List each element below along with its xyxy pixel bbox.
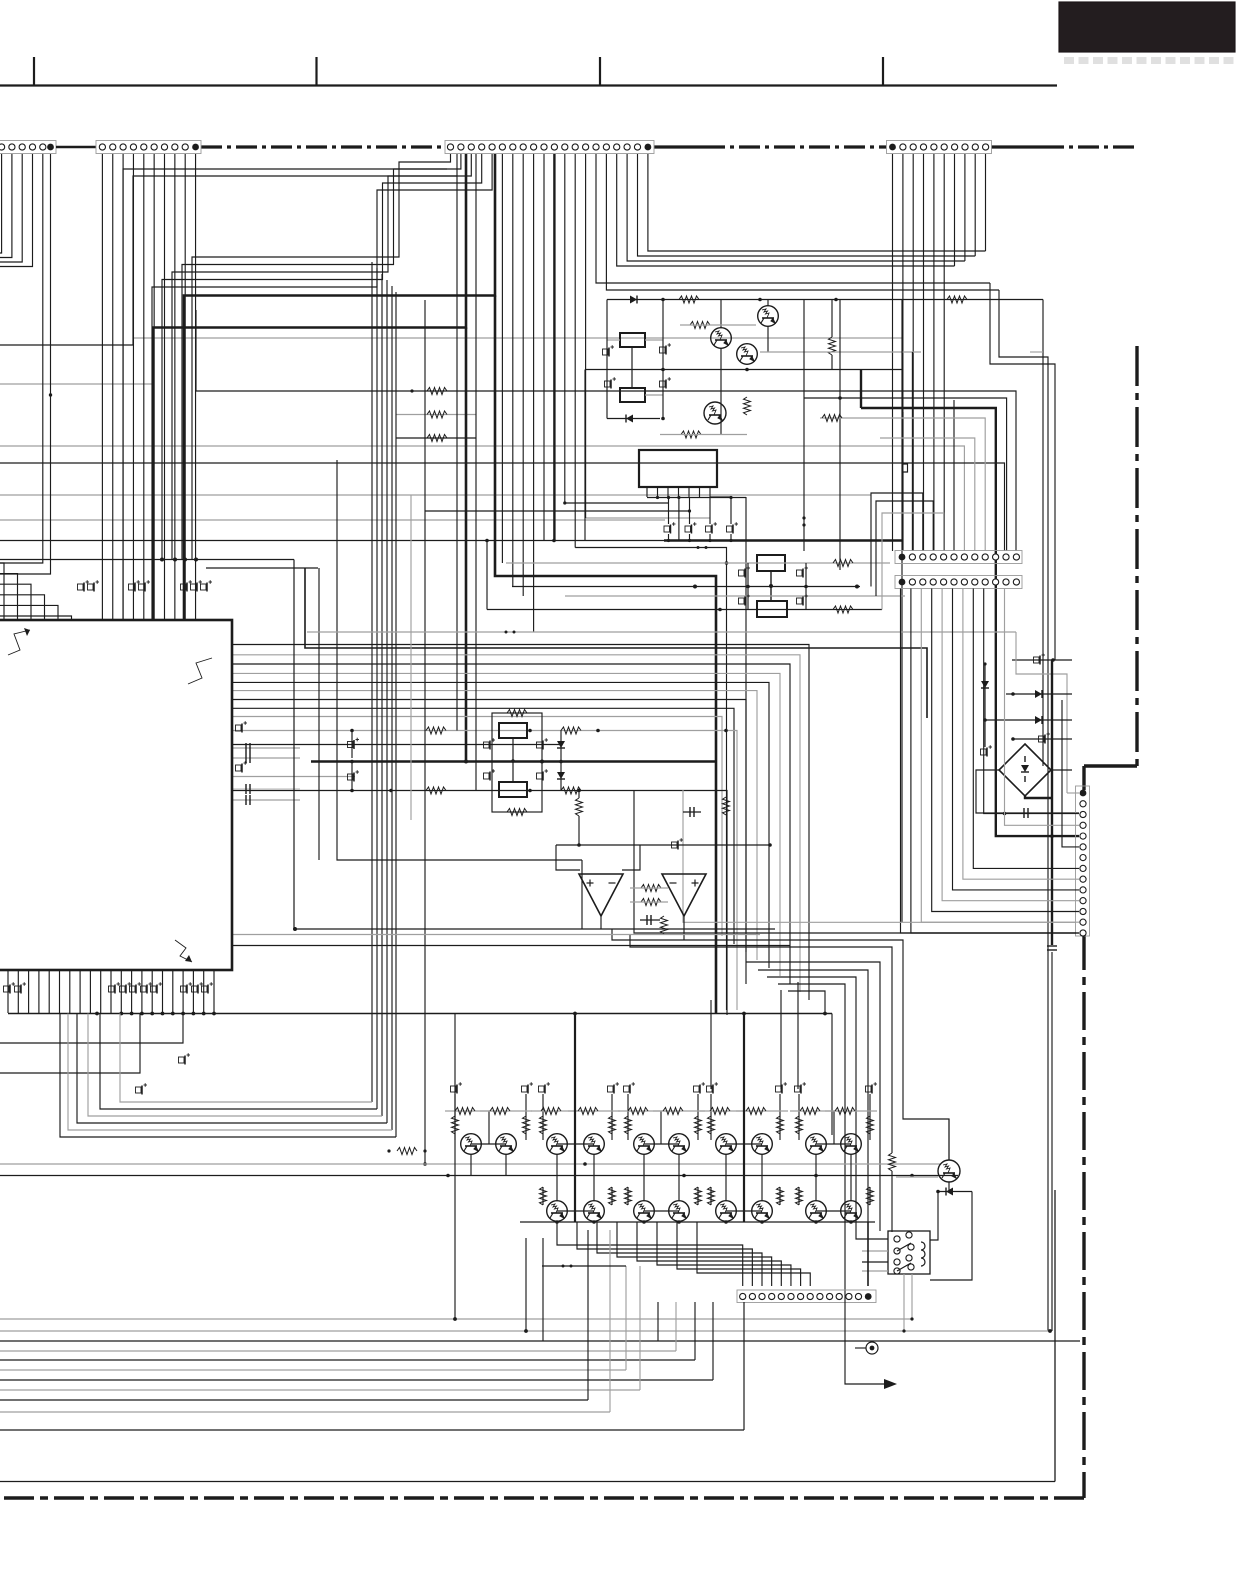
wire IC101 pin line y654 <box>232 655 800 992</box>
wire CN104 pin1 drop <box>892 154 894 551</box>
diode D201 <box>630 296 637 304</box>
resistor ta2 Rv x698 <box>695 1187 702 1205</box>
transistor QB6 <box>752 1201 773 1222</box>
connector CN107 pins <box>1080 790 1087 937</box>
connector CN102 pins <box>99 144 199 151</box>
transistor QA8 <box>752 1134 773 1155</box>
wire staircase SE 6 <box>778 984 845 1302</box>
wire ta col 798 top <box>797 982 799 1089</box>
capacitor C206 <box>797 566 809 577</box>
section border top segment A <box>201 145 445 148</box>
connector CN103 housing <box>445 141 654 154</box>
wire staircase SE 1 <box>612 929 949 1160</box>
resistor ta2 Rv x870 <box>867 1187 874 1205</box>
pcb outline right vertical <box>1054 1190 1056 1482</box>
wire X2 caps v <box>746 563 808 609</box>
wire CN105 pin9 feed gray <box>820 415 985 552</box>
resistor R402 bottom <box>507 809 527 816</box>
resistor ta Rv x870 <box>867 1116 874 1134</box>
wire elbow into IC top 4 <box>0 605 58 620</box>
wire x868 to CN108 <box>867 1222 869 1286</box>
wire CN105 pin4 feed <box>876 501 933 596</box>
capacitor C205 <box>739 566 751 577</box>
resistor ta2 Rv x612 <box>609 1187 616 1205</box>
wire CN101 pin2 drop <box>0 154 12 258</box>
component X202 box <box>757 601 787 617</box>
IC IC101 corner mark 3 <box>175 940 192 962</box>
capacitor below IC x155 <box>151 982 163 993</box>
resistor ta Rv x780 <box>777 1116 784 1134</box>
resistor ta Rv x799 <box>796 1116 803 1134</box>
wire mid y945 <box>232 945 790 947</box>
wire long vertical x133 <box>133 176 457 338</box>
wire gray y495 <box>0 494 871 496</box>
thick trace E y408 <box>861 370 1079 838</box>
wire h y559 with junctions <box>0 558 294 562</box>
wire bridge bottom thick <box>1025 770 1072 798</box>
wire gray y596 <box>565 595 905 597</box>
transistor QA3 <box>547 1134 568 1155</box>
wire bottom dots <box>453 1317 528 1333</box>
capacitor below IC x185 <box>181 982 193 993</box>
wire relay leads <box>862 1251 888 1271</box>
wire y1175 <box>0 1174 958 1178</box>
capacitor C303 <box>981 745 993 756</box>
resistor R205 v <box>744 397 751 415</box>
wire IC101 bottom pins <box>8 970 214 1013</box>
wire IC101 pin line y708 <box>232 708 734 944</box>
resistor ta Rh 7 <box>746 1108 766 1115</box>
wire CN105 pin2 feed <box>911 352 913 551</box>
wire CN107 pin4 feed gray <box>1005 589 1080 826</box>
wire CN101 pin5 drop <box>0 154 43 563</box>
capacitor below IC x113 <box>109 982 121 993</box>
wire central bundle x726 <box>575 546 728 1010</box>
wire ta row1 links <box>471 1143 851 1145</box>
wire long h y1102 gray <box>120 1014 372 1103</box>
resistor ta Rh 8 <box>800 1108 820 1115</box>
wire gray y384 <box>0 383 154 385</box>
transistor QA1 <box>461 1134 482 1155</box>
wire ta row2 links <box>543 1187 870 1211</box>
resistor R206 h <box>660 431 747 438</box>
connector CN104 pins <box>889 144 989 151</box>
thick trace A2 continue <box>495 296 716 1014</box>
wire IC101 pin line y699 <box>232 700 746 953</box>
wire X2 stem <box>769 571 773 601</box>
wire staircase to CN108 <box>557 1222 810 1286</box>
wire pin y744 <box>232 744 561 746</box>
resistor ta Rh 9 <box>835 1108 855 1115</box>
wire bb elbow1 <box>0 1014 183 1044</box>
wire CN103-CN104 run 3 <box>617 154 955 266</box>
wire h y540 <box>0 539 902 543</box>
connector CN101 housing <box>0 141 56 154</box>
wire central bundle x746 <box>745 497 747 984</box>
wire loop frame <box>492 713 542 812</box>
title block tick 1 <box>33 57 35 86</box>
capacitor C406 <box>683 807 701 817</box>
wire CN107 pin11 feed <box>942 589 1079 901</box>
transistor Q201 <box>711 300 732 435</box>
wire CN107 pin14 long <box>634 790 1076 933</box>
wire IC101 pin line y690 <box>232 691 757 960</box>
title block tick 3 <box>599 57 601 86</box>
resistor ta2 Rv x711 <box>708 1187 715 1205</box>
wire mid bundle verticals <box>372 262 396 1137</box>
resistor ta Rv x543 <box>540 1116 547 1134</box>
capacitor ta C x799 <box>795 1082 807 1093</box>
wire ta hres rail y1111 <box>445 1110 877 1112</box>
wire bridge left <box>976 770 1021 813</box>
capacitors under IC201 <box>664 522 738 533</box>
wire IC201 y503 run <box>563 154 668 505</box>
wire v x487 <box>486 542 488 610</box>
wire staircase CN103 pin3 <box>172 154 471 560</box>
resistor R401 top <box>507 710 527 717</box>
capacitor C407 <box>640 915 660 925</box>
title block tick 2 <box>315 57 317 86</box>
wire bottom bus 5 <box>0 1369 626 1371</box>
section border right vertical <box>1135 346 1138 766</box>
wire ta row2 bottom rail <box>520 1220 875 1224</box>
wire CN107 pin3 feed <box>984 589 1079 816</box>
capacitor below IC x134 <box>130 982 142 993</box>
relay RY201 coil box <box>620 333 645 347</box>
section border top segment B <box>654 145 886 148</box>
wire IC201 y511 run <box>425 154 691 548</box>
wire bridge cap <box>1021 808 1079 818</box>
wire v x295 <box>293 560 295 930</box>
wire bottom bus 0 <box>0 1318 912 1320</box>
resistor ta Rh 3 <box>578 1108 598 1115</box>
wire gray y1164 <box>0 1162 940 1166</box>
wire small caps left of IC right pins <box>232 721 300 800</box>
resistor ta Rv x628 <box>625 1116 632 1134</box>
wire h y398 <box>804 396 1007 551</box>
title caption text (illegible) <box>1064 57 1234 64</box>
wire h y520 gray <box>0 519 665 521</box>
wire CN104 pin4 drop <box>923 154 925 551</box>
wire staircase SE 7 <box>788 991 827 1015</box>
capacitor below IC x145 <box>141 982 153 993</box>
wire X2 rail gray y563 <box>506 560 890 567</box>
resistor R301 v <box>889 1153 896 1232</box>
transistor QB8 <box>841 1201 862 1222</box>
capacitor C404 <box>537 769 549 780</box>
capacitor above IC x205 <box>201 580 213 591</box>
resistor ta Rv x455 <box>452 1116 459 1134</box>
wire IC101 pin line y644 <box>232 645 809 1001</box>
transistor QB5 <box>716 1201 737 1222</box>
wire ta thick col x744 <box>743 1014 745 1223</box>
wire bottom bus 1 <box>0 1330 1050 1332</box>
wire CN107 pin10 feed <box>953 589 1080 890</box>
wire CN103 pin10 drop <box>543 154 545 541</box>
thick trace B2 continue <box>311 328 716 762</box>
transistor QA2 <box>496 1134 517 1155</box>
wire rd verticals <box>607 300 902 923</box>
connector CN108 pins <box>740 1293 872 1300</box>
component X401 box <box>499 723 527 738</box>
resistor ta Rv x526 <box>523 1116 530 1134</box>
wire CN107 pin14 feed <box>901 589 1080 934</box>
capacitor ta C x780 <box>776 1082 788 1093</box>
capacitor C403 <box>484 769 496 780</box>
wire IC201 cap drops <box>669 497 732 524</box>
wire bottom bus 4 <box>0 1359 695 1361</box>
wire RY201 stem <box>607 340 663 395</box>
wire h y438 <box>396 435 476 442</box>
wire v x425 <box>387 300 426 1166</box>
capacitor above IC x143 <box>139 580 151 591</box>
wire CN104 right pin drops <box>955 154 986 266</box>
wire staircase CN103 pin1 <box>192 154 451 560</box>
wire CN103-CN104 run 1 <box>638 154 976 256</box>
wire long h y1130 gray <box>68 1014 392 1131</box>
wire CN103 pin7 drop <box>512 154 514 587</box>
wire h y414 <box>396 411 476 418</box>
transistor QB2 <box>584 1201 605 1222</box>
wire v x455 <box>454 1014 456 1320</box>
wire rd top rail <box>607 298 902 302</box>
wire CN104 pin2 drop <box>902 154 904 551</box>
wire IC101 pin line y682 <box>232 682 769 968</box>
zener D401 <box>557 730 565 761</box>
transistor Q301 <box>938 1160 960 1182</box>
wire X2 rail y609 <box>487 606 882 613</box>
wire pin y776 <box>232 776 355 778</box>
wire ta columns <box>455 1094 870 1144</box>
IC IC201 pins <box>647 487 710 497</box>
capacitor below IC x196 <box>192 982 204 993</box>
resistor ta Rv x711 <box>708 1116 715 1134</box>
resistor ta Rh 6 <box>710 1108 730 1115</box>
wire bottom bus 7 <box>0 1389 640 1391</box>
diode D202 <box>607 415 665 423</box>
op-amp U401 <box>579 874 623 916</box>
wire v x476 <box>475 154 477 791</box>
wire CN104 pin5 drop <box>933 154 935 551</box>
wire staircase to x1055 <box>990 283 1055 660</box>
wire bottom bus solid y1430 <box>0 1429 744 1431</box>
relay RY301 coil <box>921 1242 925 1266</box>
section border top segment C <box>991 145 1137 148</box>
wire x1050 link <box>1048 1329 1052 1333</box>
capacitor ta C x628 <box>624 1082 636 1093</box>
capacitor above IC x92 <box>88 580 100 591</box>
wire opamp rail y845 <box>556 843 772 847</box>
capacitor C203 <box>605 377 617 388</box>
resistor ta2 Rv x543 <box>540 1187 547 1205</box>
zener D402 <box>557 760 565 790</box>
wire CN105 pin1 feed <box>903 412 908 551</box>
wire elbow into IC top 3 <box>0 595 45 620</box>
resistor R404 <box>630 885 668 892</box>
transistor Q202 <box>758 300 779 353</box>
op-amp U402 <box>662 874 706 916</box>
wire CN107 pin13 feed <box>921 589 1079 923</box>
capacitor C301 <box>1012 653 1072 664</box>
wire CN103-CN104 run 0 <box>648 154 986 251</box>
IC IC101 microprocessor body <box>0 620 232 970</box>
resistor ta Rv x612 <box>609 1116 616 1134</box>
relay RY301 contacts <box>894 1232 914 1274</box>
wire v x543 <box>542 1238 544 1341</box>
wire bottom bus 2 <box>0 1340 1080 1342</box>
wire elbow into IC top 1 <box>0 574 18 620</box>
wire y761 junctions <box>464 760 544 764</box>
capacitor C405 <box>672 838 684 849</box>
wire CN103 pin6 drop <box>501 154 503 563</box>
wire CN103 pin8 drop <box>522 154 524 596</box>
wire IC101 pin line y716 <box>232 717 722 937</box>
wire y1266 dots <box>542 1265 626 1268</box>
resistor ta Rh 2 <box>541 1108 561 1115</box>
connector CN107 housing <box>1076 786 1090 936</box>
wire bus h y345 <box>0 338 133 345</box>
transistor QA5 <box>634 1134 655 1155</box>
wire long h y1123 <box>77 1014 387 1124</box>
resistor ta Rh 4 <box>628 1108 648 1115</box>
resistor R407 v x726 <box>723 797 730 815</box>
title block tick 4 <box>882 57 884 86</box>
wire x832 drop <box>573 1012 832 1135</box>
capacitor below IC x8 <box>4 982 16 993</box>
transistor QA6 <box>669 1134 690 1155</box>
wire relay risers gray <box>902 1274 913 1333</box>
thick trace B <box>153 154 466 620</box>
wire CN101 pin4 drop <box>0 154 33 267</box>
capacitor C207 <box>739 594 751 605</box>
wire ta col drops <box>471 1154 851 1201</box>
wire staircase SE 4 <box>758 970 868 1222</box>
wire CN107 pin8 feed <box>973 589 1079 869</box>
capacitor ta C x455 <box>451 1082 463 1093</box>
wire bottom bus 3 <box>0 1350 676 1352</box>
connector CN106 pins <box>899 579 1020 586</box>
resistor R201 <box>679 296 699 303</box>
resistor R202 <box>902 296 1043 303</box>
wire v x411 gray <box>410 495 412 820</box>
capacitor C302 <box>1011 732 1072 743</box>
capacitor C204 <box>660 377 672 388</box>
resistor R203 v <box>829 300 836 370</box>
wire elbow into IC top 2 <box>0 584 31 620</box>
wire CN103 pin9 drop <box>533 154 535 632</box>
wire ta thick col x575 <box>574 1014 576 1223</box>
wire rd mid rail y369 <box>585 368 902 541</box>
wire CN107 pin13 long gray <box>683 790 1076 922</box>
wire arrow signal <box>845 1302 897 1389</box>
wire CN107 pin12 feed <box>932 589 1079 912</box>
connector CN105 pins <box>899 554 1020 561</box>
wire long h y1109 <box>100 1014 377 1110</box>
section border jog horizontal <box>1084 766 1137 790</box>
wire v x526 <box>525 1238 527 1331</box>
resistor R405 <box>630 899 668 906</box>
transistor QA7 <box>716 1134 737 1155</box>
wire CN107 pin6 feed <box>1062 700 1079 847</box>
bridge rectifier D304 <box>999 744 1051 796</box>
wire CN103 pin11 drop thick <box>553 154 555 541</box>
capacitor C mid x352 y744 <box>348 729 360 758</box>
resistor ta Rh 0 <box>455 1108 475 1115</box>
wire Q301 collector stub <box>948 1119 950 1160</box>
pcb outline bottom <box>0 1481 1055 1483</box>
component X402 box <box>499 782 527 797</box>
wire long vertical x123 <box>123 169 447 620</box>
wire CN103-CN104 run 2 <box>627 154 965 261</box>
wire CN105 pin8 feed gray <box>880 438 975 551</box>
thick trace D (y648 frame) <box>305 568 927 718</box>
wire rd gray y352 <box>760 351 1043 353</box>
wire under IC201 bus <box>647 496 746 499</box>
wire h y568 <box>206 567 318 569</box>
wire staircase SE 5 <box>767 977 888 1239</box>
wire Q301 emitter <box>948 1182 950 1191</box>
wire bottom risers <box>588 1230 744 1430</box>
wire CN105 pin3 feed <box>871 493 923 587</box>
wire opamp1 leads <box>556 845 640 870</box>
wire pin y730 gray <box>232 727 737 1010</box>
wire long h y1116 gray <box>88 1014 382 1117</box>
wire gray elbow x1067 <box>1016 632 1067 793</box>
capacitor above IC x133 <box>129 580 141 591</box>
diode D305 <box>936 1188 972 1196</box>
capacitor C401 <box>484 738 496 749</box>
wire IC101 pin line y673 <box>232 673 780 976</box>
wire CN104 pin6 drop <box>943 154 945 551</box>
capacitor ta C x543 <box>539 1082 551 1093</box>
section border right-lower vertical <box>1082 932 1085 1498</box>
relay RY301 body <box>888 1231 930 1274</box>
wire x972 down <box>930 1192 972 1281</box>
capacitor ta C x711 <box>707 1082 719 1093</box>
wire CN101 pin1 drop <box>0 154 2 253</box>
wire CN105 pin6 feed <box>953 400 955 551</box>
wire long h y1137 <box>60 1014 396 1138</box>
wire CN101 pin3 drop <box>0 154 22 262</box>
IC IC101 corner mark 2 <box>188 658 212 684</box>
transistor QB3 <box>634 1201 655 1222</box>
wire IC201 cap feet <box>669 498 732 541</box>
wire x938 down <box>930 1192 938 1241</box>
wire staircase SE 2 <box>630 935 892 1154</box>
relay RY201 box2 <box>620 388 645 402</box>
wire CN107 pin14 feed <box>911 589 1079 934</box>
capacitor below IC x206 <box>202 982 214 993</box>
wire bottom bus 8 <box>0 1399 588 1401</box>
wire thick x1052 <box>1047 660 1057 1331</box>
transistor QA9 <box>806 1134 827 1155</box>
wire staircase SE 3 <box>746 962 880 1231</box>
capacitor C202 <box>660 343 672 354</box>
wire CN101 pin6 drop <box>0 154 52 574</box>
capacitor C402 <box>537 738 549 749</box>
wire staircase to x1048 <box>999 290 1048 1331</box>
connector CN103 pins <box>447 144 651 151</box>
wire staircase CN103 pin5 <box>152 154 492 620</box>
wire circle-dot feed <box>855 1342 878 1354</box>
wire ta col 781 top <box>780 990 782 1089</box>
wire CN105 pin5 feed gray <box>882 513 944 610</box>
wire elbow into IC top 5 <box>0 616 72 620</box>
capacitor above IC x82 <box>78 580 90 591</box>
wire CN101-CN102 link <box>56 146 96 149</box>
capacitor C mid x352 y777 <box>348 760 360 793</box>
zener D301 <box>981 662 989 747</box>
